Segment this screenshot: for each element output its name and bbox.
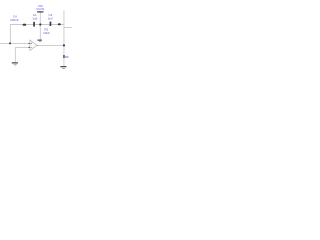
svg-text:2n2: 2n2 (48, 17, 53, 21)
junction blob on rail x=59.3 (58, 23, 61, 25)
label C2 (48, 13, 53, 21)
plus mark (31, 43, 33, 45)
minus mark (31, 46, 33, 48)
ground left (12, 62, 18, 63)
ground mid (on power drop) (38, 40, 42, 41)
junction dot input node (9, 42, 11, 44)
wire inverting input y=47.4 (15, 46, 29, 48)
ground right (60, 66, 66, 67)
label R2 below rail (43, 28, 50, 35)
wire power drop x=40.1 (39, 12, 41, 39)
capacitor C2 plates on rail (50, 22, 52, 26)
component on right vertical (63, 55, 65, 58)
op-amp output pin nub (37, 44, 38, 47)
wire left vertical x=10 (9, 25, 11, 44)
junction dot output node (63, 44, 65, 46)
junction blob on rail x=24.4 (23, 24, 27, 26)
svg-text:R5: R5 (65, 55, 69, 59)
label C1 (32, 13, 37, 20)
power port bar VCC (37, 11, 43, 12)
svg-text:1n5: 1n5 (32, 17, 37, 21)
junction dot rail x power drop (39, 23, 41, 25)
power net label (36, 4, 44, 11)
wire vertical x=15 to ground (14, 47, 16, 62)
op-amp U1 triangle (30, 40, 37, 51)
wire top rail y=24.5 from x=10 to x=63.7 (10, 24, 64, 26)
capacitor C1 plates on rail (33, 22, 35, 27)
wire op-amp output y=45.4 (37, 44, 64, 46)
svg-text:10k0: 10k0 (43, 31, 50, 35)
label C4 (10, 14, 19, 22)
wire input from left edge y=43.4 (0, 42, 30, 44)
op-amp input pin nubs (29, 43, 31, 44)
svg-text:VCC5: VCC5 (36, 7, 44, 11)
wire stub exits right edge y=27.8 (64, 27, 72, 29)
wire right vertical x=63.7 (63, 10, 65, 66)
svg-text:100nF: 100nF (10, 18, 19, 22)
